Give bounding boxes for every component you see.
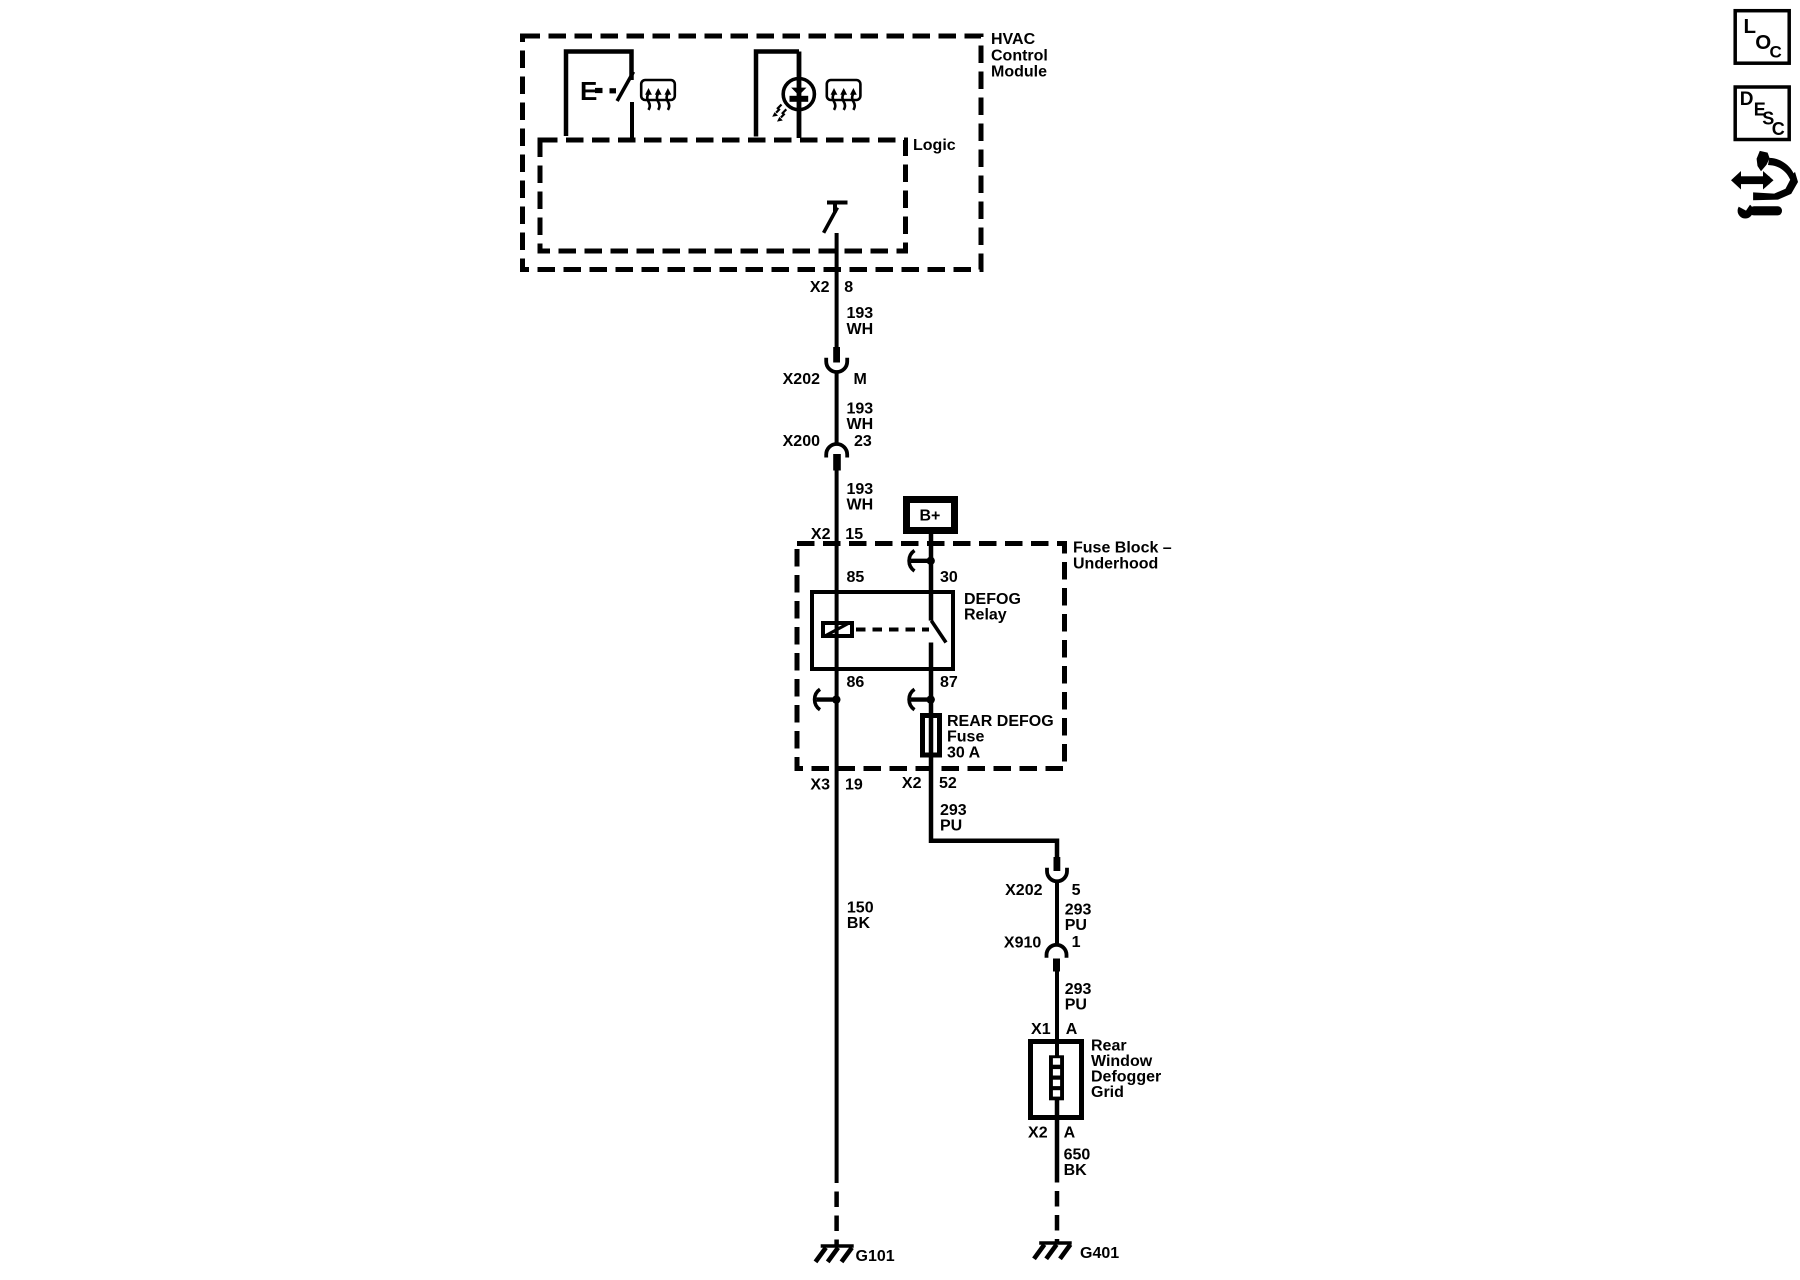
wire from B+ into fuse block [929, 534, 934, 592]
Logic dashed box [540, 140, 906, 251]
defog indicator icon 1 box [641, 80, 675, 100]
connector X202 M male pin [833, 347, 840, 363]
svg-text:150: 150 [847, 900, 874, 917]
svg-text:Underhood: Underhood [1073, 556, 1158, 573]
defog icon 2 heat arrows [831, 88, 857, 110]
svg-text:D: D [1740, 89, 1754, 110]
connector X202 5 female cup [1047, 868, 1067, 882]
connector X200 23 female cup [826, 444, 847, 458]
defog icon 1 heat arrows [645, 88, 671, 110]
logic switch stub [833, 203, 837, 213]
svg-text:BK: BK [847, 915, 871, 932]
relay switch blade [931, 621, 946, 643]
svg-text:5: 5 [1072, 882, 1081, 899]
fuse block feed clip at pin 30 [909, 551, 935, 572]
svg-text:52: 52 [939, 775, 957, 792]
actuator dashes [595, 88, 603, 93]
Fuse Block - Underhood dashed box [797, 544, 1065, 769]
HVAC Control Module dashed box [523, 36, 982, 270]
svg-text:293: 293 [1065, 902, 1092, 919]
svg-text:X2: X2 [1028, 1125, 1048, 1142]
svg-text:85: 85 [847, 569, 865, 586]
LED diode triangle [791, 88, 806, 96]
svg-text:DEFOG: DEFOG [964, 591, 1021, 608]
svg-text:BK: BK [1064, 1162, 1088, 1179]
switch-test icon bent arrow head [1757, 151, 1770, 171]
svg-text:8: 8 [844, 279, 853, 296]
svg-text:Fuse Block –: Fuse Block – [1073, 540, 1172, 557]
connector X910 1 female cup [1047, 945, 1067, 958]
svg-text:19: 19 [845, 777, 863, 794]
svg-text:G401: G401 [1080, 1245, 1119, 1262]
svg-text:Rear: Rear [1091, 1037, 1127, 1054]
svg-text:Grid: Grid [1091, 1084, 1124, 1101]
ground G101 [816, 1246, 854, 1262]
LED branch bracket wire [756, 52, 799, 137]
svg-text:293: 293 [1065, 981, 1092, 998]
connector X910 1 male pin [1053, 959, 1060, 972]
svg-text:HVAC: HVAC [991, 31, 1036, 48]
svg-text:X202: X202 [783, 371, 820, 388]
switch blade [617, 72, 633, 101]
REAR DEFOG fuse element [923, 716, 940, 756]
svg-text:Control: Control [991, 47, 1048, 64]
switch-test icon bent arrow [1753, 158, 1798, 200]
svg-text:30 A: 30 A [947, 744, 981, 761]
svg-text:REAR DEFOG: REAR DEFOG [947, 713, 1054, 730]
svg-text:30: 30 [940, 569, 958, 586]
svg-text:X2: X2 [811, 526, 831, 543]
relay coil [823, 623, 852, 636]
svg-text:Fuse: Fuse [947, 729, 984, 746]
dashed ground wire to G101 [834, 1192, 839, 1246]
LED indicator circle [783, 79, 814, 110]
svg-text:86: 86 [847, 674, 865, 691]
svg-text:Logic: Logic [913, 137, 956, 154]
svg-text:15: 15 [845, 526, 863, 543]
svg-text:X2: X2 [810, 279, 830, 296]
wire from logic switch to connector X202 pin [835, 233, 839, 348]
svg-text:193: 193 [847, 401, 874, 418]
wire X200 to relay coil [835, 471, 839, 1184]
svg-text:WH: WH [847, 416, 874, 433]
wire below switch [630, 102, 634, 138]
relay coil diagonal [824, 623, 850, 637]
svg-text:PU: PU [1065, 917, 1087, 934]
LED light arrows [772, 105, 786, 122]
DESC icon box [1735, 87, 1789, 140]
switch-test icon double arrow [1731, 171, 1774, 190]
ground G401 [1034, 1243, 1072, 1259]
svg-text:PU: PU [940, 818, 962, 835]
svg-text:87: 87 [940, 674, 958, 691]
svg-text:X3: X3 [810, 777, 830, 794]
wire element to box bottom [1055, 1100, 1060, 1183]
svg-text:PU: PU [1065, 997, 1087, 1014]
LED wire [797, 52, 802, 139]
svg-text:C: C [1770, 42, 1782, 61]
svg-text:X2: X2 [902, 775, 922, 792]
svg-text:Relay: Relay [964, 607, 1007, 624]
svg-text:X1: X1 [1031, 1021, 1051, 1038]
svg-text:B+: B+ [920, 508, 941, 525]
wire jog from fuse to X202 pin 5 [931, 841, 1057, 858]
relay output wire pin 87 [929, 643, 934, 715]
svg-text:293: 293 [940, 802, 967, 819]
relay switch fixed contact [929, 590, 934, 621]
wire X202 to X200 [835, 373, 839, 445]
wire X910 to defogger grid [1055, 971, 1059, 1056]
svg-text:WH: WH [847, 321, 874, 338]
svg-text:WH: WH [847, 497, 874, 514]
LED cathode bar [790, 96, 809, 102]
wire through fuse [929, 714, 934, 843]
B+ battery feed box [907, 500, 955, 531]
switch-test icon wrench [1738, 200, 1782, 219]
defog indicator icon 2 box [827, 80, 861, 100]
svg-text:A: A [1066, 1021, 1078, 1038]
LOC icon box [1735, 11, 1789, 64]
connector X202 M female cup [826, 358, 847, 372]
wire X202 to X910 [1055, 883, 1059, 945]
svg-text:E: E [580, 76, 597, 106]
connector X200 23 male pin [833, 454, 841, 471]
logic switch blade [824, 208, 838, 233]
svg-text:X910: X910 [1004, 935, 1041, 952]
svg-text:23: 23 [854, 433, 872, 450]
DEFOG Relay box [812, 592, 953, 669]
svg-text:M: M [854, 371, 867, 388]
svg-text:X200: X200 [783, 433, 820, 450]
svg-text:A: A [1064, 1125, 1076, 1142]
svg-text:Window: Window [1091, 1053, 1153, 1070]
svg-text:X202: X202 [1005, 882, 1042, 899]
svg-text:G101: G101 [856, 1248, 895, 1265]
logic output switch contact bar [827, 201, 848, 205]
connector X202 5 male pin [1054, 857, 1061, 871]
defogger grid heating element [1049, 1055, 1064, 1100]
Rear Window Defogger Grid box [1031, 1042, 1082, 1118]
svg-text:1: 1 [1072, 934, 1081, 951]
svg-text:C: C [1772, 119, 1785, 139]
svg-text:Defogger: Defogger [1091, 1069, 1161, 1086]
svg-text:193: 193 [847, 305, 874, 322]
relay actuation dashed link [856, 628, 929, 632]
fuse block clip at pin 86 [815, 689, 841, 710]
svg-text:650: 650 [1064, 1147, 1091, 1164]
svg-text:193: 193 [847, 481, 874, 498]
dashed ground wire to G401 [1055, 1191, 1060, 1243]
svg-text:Module: Module [991, 64, 1047, 81]
svg-text:L: L [1744, 15, 1757, 38]
defog switch S bracket wire [566, 52, 632, 137]
fuse block clip at pin 87 [909, 689, 935, 710]
